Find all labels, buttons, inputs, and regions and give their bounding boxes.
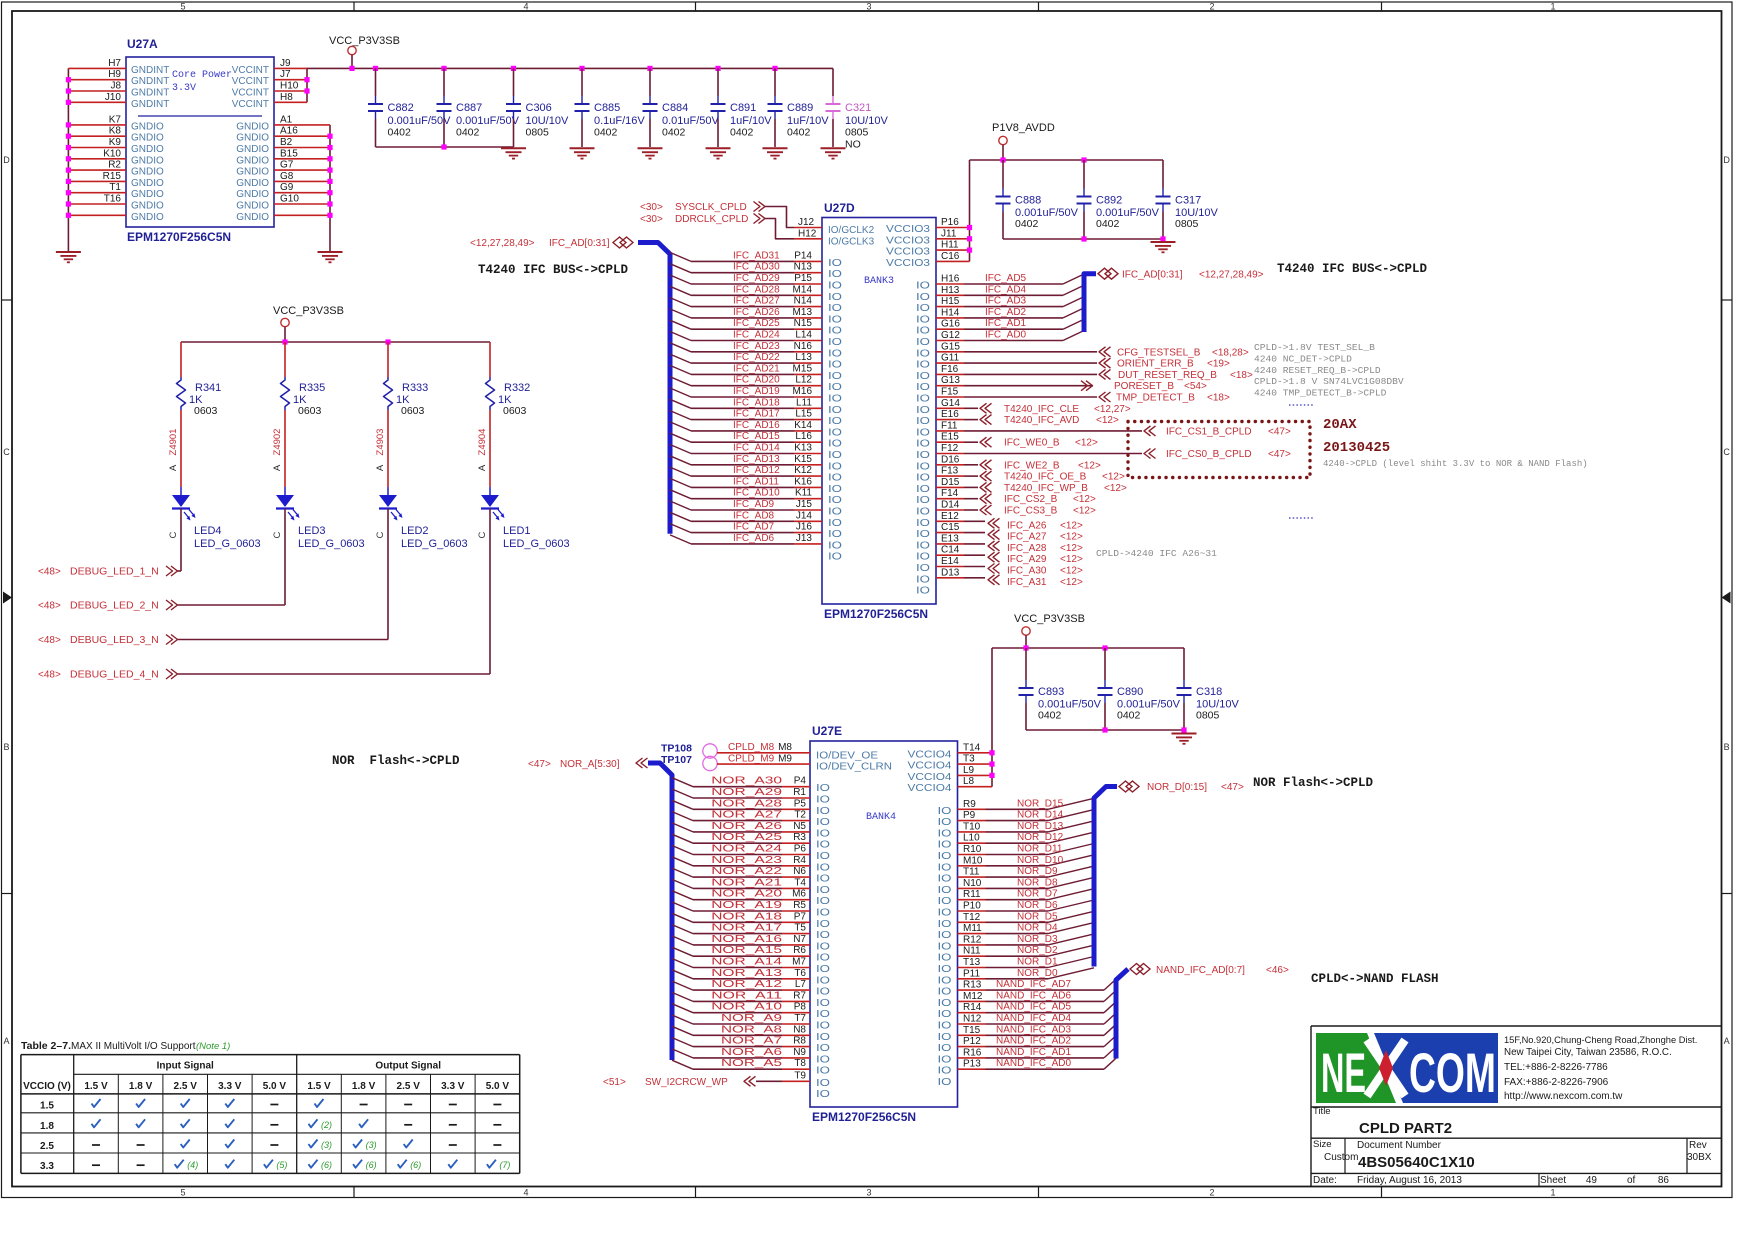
svg-text:1.5 V: 1.5 V (307, 1081, 331, 1092)
svg-text:R14: R14 (963, 1002, 982, 1013)
svg-text:1uF/10V: 1uF/10V (787, 115, 829, 127)
svg-text:IO: IO (816, 806, 830, 817)
svg-text:C: C (272, 531, 283, 538)
svg-text:N10: N10 (963, 878, 982, 889)
svg-text:NO: NO (845, 139, 861, 151)
svg-text:4BS05640C1X10: 4BS05640C1X10 (1358, 1154, 1475, 1171)
svg-text:R341: R341 (195, 382, 221, 394)
svg-text:C890: C890 (1117, 686, 1143, 698)
svg-text:M6: M6 (792, 889, 806, 900)
svg-text:IO: IO (828, 461, 842, 472)
svg-text:IO: IO (916, 337, 930, 348)
svg-text:IO: IO (916, 574, 930, 585)
svg-text:<46>: <46> (1266, 965, 1289, 976)
svg-text:IO: IO (916, 495, 930, 506)
svg-text:Core Power: Core Power (172, 70, 232, 81)
svg-text:CFG_TESTSEL_B: CFG_TESTSEL_B (1117, 347, 1201, 358)
svg-text:D: D (3, 155, 10, 165)
svg-text:IO: IO (828, 484, 842, 495)
svg-text:IFC_CS2_B: IFC_CS2_B (1004, 494, 1058, 505)
svg-text:R9: R9 (963, 799, 976, 810)
svg-text:IFC_WE0_B: IFC_WE0_B (1004, 438, 1060, 449)
svg-text:F15: F15 (941, 387, 959, 398)
svg-text:IO: IO (916, 360, 930, 371)
svg-text:E14: E14 (941, 556, 959, 567)
svg-text:IO: IO (916, 394, 930, 405)
svg-text:T6: T6 (794, 968, 806, 979)
svg-text:3.3 V: 3.3 V (218, 1081, 242, 1092)
svg-text:IFC_AD23: IFC_AD23 (733, 341, 780, 352)
svg-text:L12: L12 (795, 375, 812, 386)
svg-text:K13: K13 (794, 443, 812, 454)
svg-text:J9: J9 (280, 58, 291, 69)
svg-text:NOR_D[0:15]: NOR_D[0:15] (1147, 782, 1207, 793)
svg-text:IO: IO (816, 1021, 830, 1032)
svg-text:VCCIO (V): VCCIO (V) (23, 1081, 71, 1092)
svg-text:D: D (1723, 155, 1730, 165)
svg-text:IFC_AD4: IFC_AD4 (985, 284, 1027, 295)
svg-text:<12>: <12> (1075, 438, 1098, 449)
svg-text:NE: NE (1321, 1041, 1366, 1104)
svg-text:IO: IO (938, 1032, 952, 1043)
svg-text:C891: C891 (730, 102, 756, 114)
svg-text:IO: IO (938, 1077, 952, 1088)
svg-text:C884: C884 (662, 102, 688, 114)
svg-text:LED_G_0603: LED_G_0603 (503, 538, 570, 550)
svg-text:IO: IO (828, 326, 842, 337)
svg-text:0603: 0603 (194, 405, 218, 417)
svg-text:IO/DEV_OE: IO/DEV_OE (816, 750, 878, 761)
svg-text:LED_G_0603: LED_G_0603 (194, 538, 261, 550)
svg-text:0.1uF/16V: 0.1uF/16V (594, 115, 645, 127)
svg-text:IO: IO (938, 975, 952, 986)
svg-text:A: A (272, 464, 283, 471)
svg-text:N14: N14 (794, 296, 813, 307)
svg-text:IO: IO (828, 281, 842, 292)
svg-text:IO: IO (916, 540, 930, 551)
svg-text:E15: E15 (941, 432, 959, 443)
svg-text:<12,27>: <12,27> (1094, 404, 1131, 415)
svg-text:A16: A16 (280, 126, 298, 137)
svg-text:K9: K9 (109, 137, 122, 148)
svg-text:IO: IO (816, 862, 830, 873)
svg-text:0805: 0805 (1175, 218, 1199, 230)
svg-text:IFC_A26: IFC_A26 (1007, 520, 1047, 531)
svg-text:ORIENT_ERR_B: ORIENT_ERR_B (1117, 359, 1194, 370)
svg-text:NAND_IFC_AD[0:7]: NAND_IFC_AD[0:7] (1156, 965, 1245, 976)
svg-text:IFC_CS0_B_CPLD: IFC_CS0_B_CPLD (1166, 449, 1252, 460)
svg-text:M7: M7 (792, 957, 806, 968)
svg-text:3.3V: 3.3V (172, 83, 196, 94)
svg-text:http://www.nexcom.com.tw: http://www.nexcom.com.tw (1504, 1091, 1623, 1102)
svg-text:IO: IO (828, 405, 842, 416)
svg-text:1uF/10V: 1uF/10V (730, 115, 772, 127)
svg-text:VCCINT: VCCINT (232, 88, 269, 99)
svg-text:R333: R333 (402, 382, 428, 394)
svg-text:IO: IO (916, 473, 930, 484)
svg-text:VCCINT: VCCINT (232, 65, 269, 76)
svg-text:NAND_IFC_AD6: NAND_IFC_AD6 (996, 990, 1071, 1001)
svg-text:LED1: LED1 (503, 525, 531, 537)
svg-text:NOR_A28: NOR_A28 (711, 798, 782, 809)
svg-text:IO: IO (816, 828, 830, 839)
svg-text:NOR_D5: NOR_D5 (1017, 911, 1058, 922)
svg-text:IO: IO (938, 953, 952, 964)
svg-text:IO: IO (938, 1009, 952, 1020)
svg-text:P16: P16 (941, 217, 959, 228)
svg-text:IO: IO (828, 360, 842, 371)
svg-text:P6: P6 (794, 844, 807, 855)
svg-text:L11: L11 (796, 397, 812, 408)
svg-text:A: A (168, 464, 179, 471)
svg-text:<47>: <47> (1221, 782, 1244, 793)
svg-text:of: of (1627, 1175, 1636, 1186)
svg-text:CPLD->4240 IFC A26~31: CPLD->4240 IFC A26~31 (1096, 548, 1217, 559)
svg-text:<12>: <12> (1060, 543, 1083, 554)
svg-text:GNDINT: GNDINT (131, 99, 169, 110)
svg-text:2.5 V: 2.5 V (397, 1081, 421, 1092)
svg-text:F11: F11 (941, 420, 958, 431)
svg-text:T3: T3 (963, 754, 975, 765)
svg-text:IO: IO (938, 806, 952, 817)
svg-text:NOR_A6: NOR_A6 (721, 1047, 783, 1058)
svg-text:IO: IO (828, 450, 842, 461)
svg-text:VCCIO4: VCCIO4 (908, 783, 953, 794)
svg-text:H8: H8 (280, 92, 293, 103)
svg-text:IO: IO (828, 507, 842, 518)
svg-text:R10: R10 (963, 844, 982, 855)
svg-text:M12: M12 (963, 991, 983, 1002)
svg-text:D14: D14 (941, 500, 960, 511)
svg-text:5: 5 (180, 1188, 185, 1198)
svg-text:NOR_D9: NOR_D9 (1017, 866, 1058, 877)
svg-text:IO: IO (816, 795, 830, 806)
svg-text:NOR Flash<->CPLD: NOR Flash<->CPLD (1253, 776, 1374, 790)
svg-text:IO: IO (916, 518, 930, 529)
svg-text:IO: IO (816, 987, 830, 998)
svg-text:2: 2 (1209, 1, 1214, 11)
svg-text:VCCIO3: VCCIO3 (886, 224, 931, 235)
svg-text:GNDINT: GNDINT (131, 88, 169, 99)
svg-text:R335: R335 (299, 382, 325, 394)
svg-text:VCCINT: VCCINT (232, 76, 269, 87)
svg-text:IFC_AD19: IFC_AD19 (733, 386, 780, 397)
svg-text:B15: B15 (280, 148, 298, 159)
svg-text:GNDIO: GNDIO (131, 189, 164, 200)
svg-text:R7: R7 (793, 990, 806, 1001)
svg-text:P4: P4 (794, 776, 807, 787)
svg-text:M14: M14 (793, 284, 813, 295)
svg-text:P13: P13 (963, 1059, 981, 1070)
svg-text:NOR_A25: NOR_A25 (711, 832, 782, 843)
svg-text:IO: IO (816, 817, 830, 828)
svg-text:IFC_AD13: IFC_AD13 (733, 454, 780, 465)
svg-text:<51>: <51> (603, 1077, 626, 1088)
svg-text:K14: K14 (794, 420, 812, 431)
svg-text:R15: R15 (103, 171, 122, 182)
svg-text:<18,28>: <18,28> (1212, 347, 1249, 358)
svg-text:K7: K7 (109, 114, 122, 125)
svg-text:G8: G8 (280, 171, 294, 182)
svg-text:CPLD PART2: CPLD PART2 (1359, 1120, 1452, 1137)
svg-text:0402: 0402 (730, 127, 754, 139)
svg-text:IO: IO (828, 348, 842, 359)
svg-text:B: B (1724, 742, 1730, 752)
svg-text:C: C (477, 531, 488, 538)
svg-text:NOR_D10: NOR_D10 (1017, 855, 1064, 866)
svg-text:LED_G_0603: LED_G_0603 (298, 538, 365, 550)
svg-text:<12>: <12> (1102, 472, 1125, 483)
svg-text:CPLD_M9: CPLD_M9 (728, 753, 775, 764)
svg-text:IFC_AD15: IFC_AD15 (733, 431, 780, 442)
svg-text:COM: COM (1409, 1041, 1496, 1104)
svg-text:R2: R2 (108, 160, 121, 171)
svg-text:B2: B2 (280, 137, 293, 148)
svg-text:R13: R13 (963, 980, 982, 991)
svg-text:0402: 0402 (662, 127, 686, 139)
svg-text:IO: IO (828, 427, 842, 438)
svg-text:IFC_AD17: IFC_AD17 (733, 409, 780, 420)
svg-text:L7: L7 (795, 979, 807, 990)
svg-text:L10: L10 (963, 833, 980, 844)
svg-text:NOR_A9: NOR_A9 (721, 1013, 783, 1024)
svg-text:SW_I2CRCW_WP: SW_I2CRCW_WP (645, 1077, 728, 1088)
svg-text:IO: IO (938, 828, 952, 839)
svg-text:P15: P15 (794, 273, 812, 284)
svg-text:C15: C15 (941, 522, 960, 533)
svg-text:DEBUG_LED_1_N: DEBUG_LED_1_N (70, 566, 159, 578)
svg-text:NOR_D7: NOR_D7 (1017, 889, 1058, 900)
svg-text:NOR_D8: NOR_D8 (1017, 877, 1058, 888)
svg-text:(7): (7) (499, 1160, 510, 1170)
svg-text:5.0 V: 5.0 V (486, 1081, 510, 1092)
svg-text:GNDIO: GNDIO (131, 178, 164, 189)
svg-text:IO: IO (828, 416, 842, 427)
svg-text:TP107: TP107 (661, 754, 692, 766)
svg-text:GNDIO: GNDIO (131, 212, 164, 223)
svg-text:IO: IO (828, 518, 842, 529)
svg-text:N6: N6 (793, 866, 806, 877)
svg-text:U27D: U27D (824, 201, 855, 215)
svg-text:T2: T2 (794, 810, 806, 821)
svg-text:U27A: U27A (127, 37, 158, 51)
svg-text:NOR_A15: NOR_A15 (711, 945, 782, 956)
svg-text:<30>: <30> (640, 214, 663, 225)
svg-text:IO: IO (916, 382, 930, 393)
svg-text:T9: T9 (794, 1070, 806, 1081)
svg-text:NAND_IFC_AD0: NAND_IFC_AD0 (996, 1058, 1071, 1069)
svg-text:C317: C317 (1175, 195, 1201, 207)
svg-text:P7: P7 (794, 911, 807, 922)
svg-text:GNDIO: GNDIO (236, 155, 269, 166)
svg-text:NOR_A18: NOR_A18 (711, 911, 782, 922)
svg-text:Date:: Date: (1313, 1175, 1337, 1186)
svg-text:IFC_AD[0:31]: IFC_AD[0:31] (1122, 270, 1183, 281)
svg-text:NOR_A14: NOR_A14 (711, 957, 782, 968)
svg-text:IFC_AD7: IFC_AD7 (733, 522, 775, 533)
svg-text:IO: IO (816, 930, 830, 941)
svg-text:H10: H10 (280, 81, 299, 92)
svg-text:IFC_AD14: IFC_AD14 (733, 443, 780, 454)
svg-text:IFC_AD22: IFC_AD22 (733, 352, 780, 363)
svg-text:M9: M9 (778, 753, 792, 764)
svg-text:30BX: 30BX (1687, 1152, 1712, 1163)
svg-text:B: B (3, 742, 9, 752)
svg-text:GNDIO: GNDIO (131, 201, 164, 212)
svg-text:GNDIO: GNDIO (131, 144, 164, 155)
svg-text:P8: P8 (794, 1002, 807, 1013)
svg-text:0402: 0402 (594, 127, 618, 139)
svg-text:CPLD->1.8 V SN74LVC1G08DBV: CPLD->1.8 V SN74LVC1G08DBV (1254, 376, 1404, 387)
svg-text:IFC_AD8: IFC_AD8 (733, 510, 775, 521)
svg-text:NOR_D3: NOR_D3 (1017, 934, 1058, 945)
svg-text:N12: N12 (963, 1014, 982, 1025)
svg-text:NOR_D1: NOR_D1 (1017, 957, 1058, 968)
svg-text:NOR_A[5:30]: NOR_A[5:30] (560, 759, 620, 770)
svg-text:IFC_A31: IFC_A31 (1007, 577, 1047, 588)
svg-text:T4240 IFC BUS<->CPLD: T4240 IFC BUS<->CPLD (478, 263, 629, 277)
svg-text:IFC_AD12: IFC_AD12 (733, 465, 780, 476)
svg-text:LED2: LED2 (401, 525, 429, 537)
svg-text:IFC_AD24: IFC_AD24 (733, 330, 780, 341)
svg-text:M11: M11 (963, 923, 982, 934)
svg-text:VCC_P3V3SB: VCC_P3V3SB (1014, 613, 1085, 625)
svg-text:NOR_D4: NOR_D4 (1017, 923, 1058, 934)
svg-text:2.5: 2.5 (40, 1141, 54, 1152)
svg-text:IO: IO (938, 840, 952, 851)
svg-text:H15: H15 (941, 296, 960, 307)
svg-text:U27E: U27E (812, 724, 842, 738)
svg-text:<12>: <12> (1060, 532, 1083, 543)
svg-text:3: 3 (866, 1, 871, 11)
svg-text:(4): (4) (187, 1160, 198, 1170)
svg-text:IO/DEV_CLRN: IO/DEV_CLRN (816, 762, 892, 773)
svg-text:IO: IO (816, 941, 830, 952)
svg-text:IO: IO (816, 1032, 830, 1043)
svg-text:0402: 0402 (1038, 710, 1062, 722)
svg-text:<12>: <12> (1060, 566, 1083, 577)
svg-text:J10: J10 (105, 92, 122, 103)
svg-text:Friday, August 16, 2013: Friday, August 16, 2013 (1357, 1175, 1462, 1186)
svg-text:Z4902: Z4902 (272, 429, 283, 456)
svg-text:20130425: 20130425 (1323, 440, 1390, 456)
svg-text:K10: K10 (103, 148, 121, 159)
svg-text:VCCIO4: VCCIO4 (908, 761, 953, 772)
svg-text:VCCIO3: VCCIO3 (886, 258, 931, 269)
svg-text:IFC_AD[0:31]: IFC_AD[0:31] (549, 238, 610, 249)
svg-text:2: 2 (1209, 1188, 1214, 1198)
svg-text:M13: M13 (793, 307, 813, 318)
svg-text:IFC_A28: IFC_A28 (1007, 543, 1047, 554)
svg-text:GNDINT: GNDINT (131, 76, 169, 87)
svg-text:J8: J8 (110, 81, 121, 92)
svg-text:<12>: <12> (1060, 577, 1083, 588)
svg-text:N11: N11 (963, 946, 981, 957)
svg-text:NOR_D0: NOR_D0 (1017, 968, 1058, 979)
svg-text:IO: IO (916, 371, 930, 382)
svg-text:TEL:+886-2-8226-7786: TEL:+886-2-8226-7786 (1504, 1062, 1608, 1073)
svg-text:NOR_D13: NOR_D13 (1017, 821, 1064, 832)
svg-text:P1V8_AVDD: P1V8_AVDD (992, 122, 1055, 134)
svg-text:IO: IO (938, 1021, 952, 1032)
svg-text:10U/10V: 10U/10V (526, 115, 569, 127)
svg-text:E12: E12 (941, 511, 959, 522)
svg-text:IO: IO (828, 258, 842, 269)
svg-text:VCC_P3V3SB: VCC_P3V3SB (273, 305, 344, 317)
svg-text:IO: IO (828, 473, 842, 484)
svg-text:K16: K16 (794, 476, 812, 487)
svg-text:DEBUG_LED_3_N: DEBUG_LED_3_N (70, 634, 159, 646)
svg-text:IO: IO (916, 348, 930, 359)
svg-text:0402: 0402 (1117, 710, 1141, 722)
svg-text:SYSCLK_CPLD: SYSCLK_CPLD (675, 202, 747, 213)
svg-text:P12: P12 (963, 1036, 981, 1047)
svg-text:LED4: LED4 (194, 525, 222, 537)
svg-text:NOR_D12: NOR_D12 (1017, 832, 1064, 843)
svg-text:NOR_A17: NOR_A17 (711, 923, 782, 934)
svg-text:IO: IO (938, 987, 952, 998)
svg-text:H16: H16 (941, 274, 960, 285)
svg-text:GNDIO: GNDIO (131, 155, 164, 166)
svg-text:F12: F12 (941, 443, 959, 454)
svg-text:G13: G13 (941, 375, 960, 386)
svg-text:Sheet: Sheet (1540, 1175, 1566, 1186)
svg-text:IFC_CS1_B_CPLD: IFC_CS1_B_CPLD (1166, 426, 1252, 437)
svg-text:C892: C892 (1096, 195, 1122, 207)
svg-text:IO: IO (828, 382, 842, 393)
svg-text:NOR_A19: NOR_A19 (711, 900, 782, 911)
svg-text:P14: P14 (794, 250, 812, 261)
svg-text:PORESET_B: PORESET_B (1114, 381, 1174, 392)
svg-text:H12: H12 (798, 228, 817, 239)
svg-text:NAND_IFC_AD7: NAND_IFC_AD7 (996, 979, 1071, 990)
svg-text:P11: P11 (963, 968, 980, 979)
svg-text:IO: IO (828, 439, 842, 450)
svg-text:CPLD_M8: CPLD_M8 (728, 742, 775, 753)
svg-text:C887: C887 (456, 102, 482, 114)
svg-text:86: 86 (1658, 1175, 1670, 1186)
svg-text:L15: L15 (795, 409, 812, 420)
svg-text:4240->CPLD (level shiht 3.3V t: 4240->CPLD (level shiht 3.3V to NOR & NA… (1323, 459, 1588, 469)
svg-text:MAX II MultiVolt I/O Support: MAX II MultiVolt I/O Support (71, 1041, 196, 1052)
svg-text:GNDIO: GNDIO (236, 133, 269, 144)
svg-text:<19>: <19> (1207, 359, 1230, 370)
svg-text:C: C (375, 531, 386, 538)
svg-text:T4: T4 (794, 877, 806, 888)
svg-text:T11: T11 (963, 867, 980, 878)
svg-text:R3: R3 (793, 832, 806, 843)
svg-text:LED3: LED3 (298, 525, 326, 537)
svg-text:R6: R6 (793, 945, 806, 956)
svg-text:DEBUG_LED_4_N: DEBUG_LED_4_N (70, 669, 159, 681)
svg-text:J7: J7 (280, 69, 291, 80)
svg-text:R5: R5 (793, 900, 806, 911)
svg-text:P5: P5 (794, 798, 807, 809)
svg-text:Z4901: Z4901 (168, 429, 179, 456)
svg-text:LED_G_0603: LED_G_0603 (401, 538, 468, 550)
svg-text:E16: E16 (941, 409, 959, 420)
svg-text:IFC_AD25: IFC_AD25 (733, 318, 780, 329)
svg-text:<48>: <48> (38, 601, 61, 612)
svg-text:NAND_IFC_AD1: NAND_IFC_AD1 (996, 1047, 1071, 1058)
svg-text:TP108: TP108 (661, 743, 692, 755)
svg-text:IO: IO (938, 851, 952, 862)
svg-text:IFC_AD5: IFC_AD5 (985, 273, 1027, 284)
svg-text:IO: IO (938, 896, 952, 907)
svg-text:R12: R12 (963, 934, 982, 945)
svg-text:NOR_A20: NOR_A20 (711, 889, 782, 900)
svg-text:Z4904: Z4904 (477, 429, 488, 456)
